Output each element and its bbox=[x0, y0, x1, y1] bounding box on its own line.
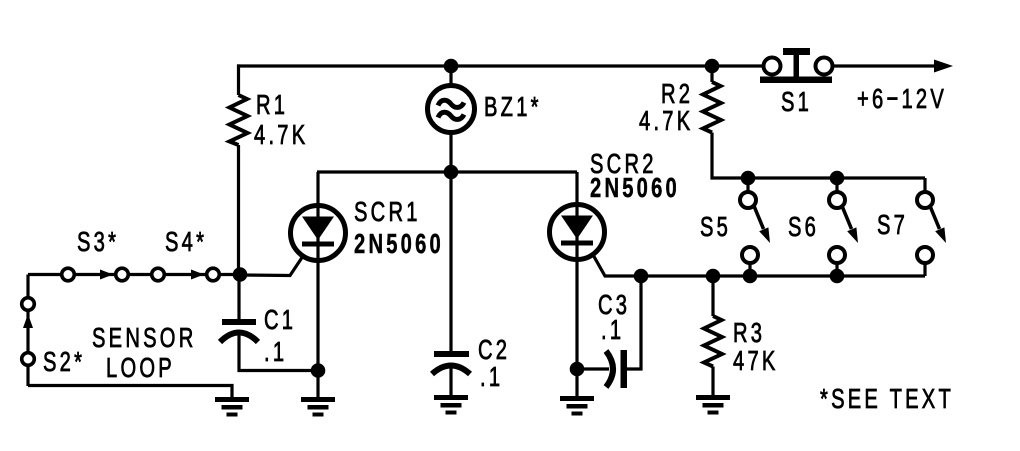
svg-text:.1: .1 bbox=[480, 362, 503, 393]
switch S5 upper contact bbox=[740, 192, 756, 208]
wire S7 lower stem bbox=[923, 263, 926, 276]
svg-text:C1: C1 bbox=[264, 305, 296, 336]
svg-text:S5: S5 bbox=[700, 212, 731, 243]
svg-text:.1: .1 bbox=[264, 337, 287, 368]
wire SCR1 gate bbox=[240, 256, 303, 276]
SCR2 bbox=[561, 216, 593, 240]
svg-text:2N5060: 2N5060 bbox=[590, 173, 680, 204]
resistor R3 bbox=[711, 276, 714, 316]
wire R1 bottom to sensor junction bbox=[237, 145, 240, 275]
wire R2 bottom to switch rail bbox=[712, 133, 925, 179]
svg-text:47K: 47K bbox=[733, 346, 779, 377]
ground SCR1/C1 bbox=[301, 397, 335, 402]
sensor arrow right 1 bbox=[100, 270, 113, 280]
wire top supply rail bbox=[237, 64, 763, 67]
wire BZ1 top stem bbox=[449, 66, 452, 86]
svg-text:LOOP: LOOP bbox=[106, 353, 175, 384]
svg-text:S4*: S4* bbox=[165, 227, 207, 258]
svg-text:.1: .1 bbox=[601, 315, 624, 346]
wire sensor loop left vertical bbox=[26, 275, 29, 387]
switch contact circle S2 bottom bbox=[22, 353, 35, 366]
sensor arrow up S2 bbox=[23, 314, 33, 328]
wire BZ1 bottom stem bbox=[449, 132, 452, 172]
switch S7 lower contact bbox=[917, 247, 933, 263]
ground sensor loop bbox=[215, 397, 249, 402]
switch S5 lower contact bbox=[742, 247, 758, 263]
ground R3 bbox=[696, 395, 730, 400]
wire left vertical R1 branch upper bbox=[237, 64, 240, 95]
switch S7 blade arrow bbox=[930, 206, 940, 229]
resistor R1 bbox=[230, 95, 248, 145]
svg-text:S2*: S2* bbox=[43, 347, 85, 378]
wire top rail right of S1 bbox=[833, 64, 936, 67]
svg-text:SCR1: SCR1 bbox=[354, 197, 421, 228]
switch S5 blade arrow bbox=[754, 206, 764, 229]
wire S6 top stem bbox=[835, 178, 838, 193]
svg-text:BZ1*: BZ1* bbox=[484, 92, 542, 123]
capacitor C1 bbox=[237, 275, 240, 321]
wire sensor loop top bbox=[28, 273, 240, 276]
wire SCR2 ground stem bbox=[575, 369, 578, 398]
svg-text:+6−12V: +6−12V bbox=[857, 84, 947, 115]
resistor R2 bbox=[710, 66, 713, 82]
switch S7 upper contact bbox=[917, 192, 933, 208]
sensor arrow right 2 bbox=[191, 270, 204, 280]
node junction dot S6 bottom bbox=[830, 269, 845, 284]
wire SCR2 vertical anode-cathode bbox=[575, 172, 578, 369]
svg-text:S6: S6 bbox=[788, 212, 819, 243]
node junction dot S5 bottom bbox=[743, 269, 758, 284]
node junction dot S6 top bbox=[830, 171, 845, 186]
switch S6 blade arrow bbox=[842, 206, 852, 229]
ground SCR2/C3 bbox=[560, 396, 594, 401]
svg-text:R1: R1 bbox=[256, 90, 288, 121]
switch contact circle S2 top bbox=[22, 298, 35, 311]
node junction dot S5 top bbox=[741, 171, 756, 186]
node junction dot R2 top bbox=[705, 59, 720, 74]
node junction dot SCR1 cathode/ground bbox=[311, 363, 326, 378]
svg-text:S3*: S3* bbox=[77, 227, 119, 258]
wire sensor loop bottom bbox=[28, 386, 232, 400]
node junction dot C3 right on gate rail bbox=[634, 269, 649, 284]
capacitor C2 bbox=[449, 172, 452, 352]
node junction dot R3 top bbox=[706, 269, 721, 284]
svg-text:S7: S7 bbox=[877, 210, 908, 241]
supply arrowhead bbox=[934, 60, 953, 73]
SCR1 bbox=[302, 217, 334, 241]
svg-text:*SEE TEXT: *SEE TEXT bbox=[820, 384, 954, 415]
node junction dot BZ1 top bbox=[444, 59, 459, 74]
node junction dot sensor/gate/C1 bbox=[233, 267, 248, 282]
svg-text:4.7K: 4.7K bbox=[639, 106, 693, 137]
switch contact circle S4 left bbox=[152, 268, 165, 281]
svg-text:SENSOR: SENSOR bbox=[92, 323, 197, 354]
wire SCR1 vertical anode-cathode bbox=[316, 172, 319, 371]
capacitor C3 bbox=[577, 367, 609, 370]
svg-text:R3: R3 bbox=[733, 318, 765, 349]
switch contact circle S3 right bbox=[116, 268, 129, 281]
wire SCR2 gate and lower rail bbox=[592, 253, 925, 276]
switch S6 upper contact bbox=[829, 192, 845, 208]
wire S5 lower stem bbox=[748, 263, 751, 276]
wire mid rail between SCR anodes bbox=[317, 170, 577, 173]
node junction dot mid rail bbox=[444, 165, 459, 180]
switch S6 lower contact bbox=[829, 247, 845, 263]
wire S6 lower stem bbox=[835, 263, 838, 276]
switch contact circle S3 left bbox=[62, 268, 75, 281]
switch S1 pushbutton bbox=[760, 77, 832, 84]
switch contact circle S4 right bbox=[207, 268, 220, 281]
buzzer BZ1 bbox=[428, 86, 475, 133]
node junction dot SCR2 cathode/C3/ground bbox=[570, 362, 585, 377]
svg-text:4.7K: 4.7K bbox=[254, 120, 308, 151]
ground C2 bbox=[434, 395, 468, 400]
wire SCR1 ground stem bbox=[316, 371, 319, 400]
svg-text:2N5060: 2N5060 bbox=[354, 229, 444, 260]
wire S5 top stem bbox=[746, 178, 749, 193]
wire S7 top drop bbox=[923, 178, 926, 193]
svg-text:S1: S1 bbox=[781, 87, 812, 118]
